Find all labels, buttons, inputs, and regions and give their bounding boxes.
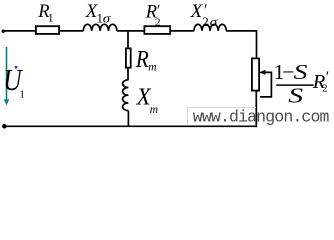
arrow: U1 voltage phasor (teal) [6,47,8,101]
svg-text:σ: σ [103,12,112,26]
arrow: slider arrow on load resistor [260,72,271,97]
resistor Rm [126,48,131,67]
inductor X1sigma [83,24,117,31]
wire: top-left terminal to R1 [3,30,35,32]
fraction bar [276,84,313,86]
svg-text:1: 1 [19,88,25,100]
wire: bottom return wire [4,125,257,127]
inductor Xm [123,80,129,111]
svg-text:R: R [135,45,149,72]
wire: Rm to Xm [127,68,129,81]
svg-text:m: m [148,62,156,74]
wire: Xm to bottom wire [127,111,129,127]
svg-text:S: S [288,83,303,107]
wire: X2sigma' to top-right corner [226,30,256,32]
label U1 (phasor, blue) [15,66,18,69]
svg-text:2: 2 [202,14,209,29]
wire: junction down to Rm [127,31,129,49]
svg-text:m: m [150,104,158,116]
inductor X2sigma' [194,24,226,31]
svg-text:1: 1 [48,12,54,24]
svg-text:σ: σ [210,16,219,30]
resistor (1-S)/S R2' (vertical box) [252,58,259,90]
svg-text:2: 2 [155,16,161,28]
resistor R2' [144,26,170,34]
svg-text:2: 2 [322,84,327,95]
node: bottom-left terminal [2,124,7,129]
svg-text:www.diangon.com: www.diangon.com [193,108,330,127]
wire: R2' to X2sigma' [171,30,194,32]
frame: faint watermark text-box border [188,108,257,126]
node: top-left input terminal [2,30,5,33]
wire: R1 to X1sigma [60,30,83,32]
wire: right branch down to load resistor [256,30,258,58]
resistor R1 [36,26,59,34]
wire: X1sigma to R2' (through shunt junction) [117,30,144,32]
wire: load resistor to bottom-right corner [255,91,257,128]
svg-text:S: S [294,61,309,84]
